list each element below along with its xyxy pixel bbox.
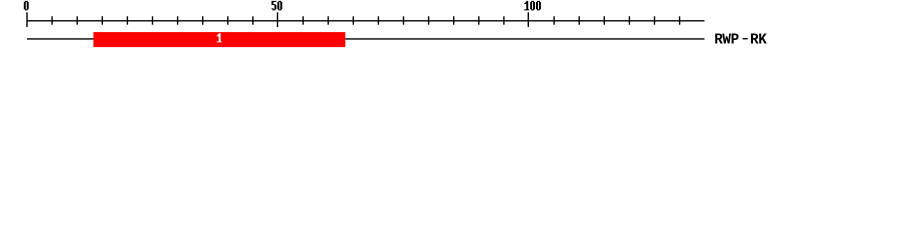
hyphen of RWP-RK — [743, 38, 748, 39]
svg-text:RK: RK — [750, 33, 767, 49]
ruler baseline — [27, 20, 705, 22]
ruler label 50 — [272, 1, 283, 10]
ruler label 100 — [524, 1, 541, 10]
minor ticks 5-45 — [51, 16, 53, 24]
ruler label 0 — [24, 1, 29, 10]
major tick 100 — [527, 12, 529, 27]
ruler ticks — [27, 12, 680, 27]
background — [0, 0, 900, 58]
svg-text:RWP: RWP — [714, 33, 739, 49]
sequence line right segment — [345, 38, 704, 40]
major tick 50 — [277, 12, 279, 27]
minor ticks 105-130 — [553, 16, 555, 24]
sequence line left segment — [27, 38, 93, 40]
minor ticks 55-95 — [302, 16, 304, 24]
domain number label 1 — [217, 33, 222, 42]
domain box RWP-RK (red) — [93, 32, 345, 47]
major tick 0 — [26, 12, 28, 27]
